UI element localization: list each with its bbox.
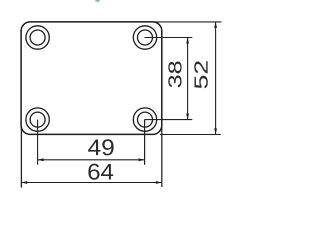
- dimension line 38: [187, 38, 189, 120]
- extension line 52 bottom (plate bottom edge extended right): [160, 134, 221, 136]
- hole bottom-left inner: [30, 112, 45, 127]
- arrow 38 up: [186, 38, 189, 44]
- extension line 64 left (plate left edge extended down): [20, 127, 22, 188]
- hole top-left outer: [26, 26, 49, 49]
- dimension line 49: [38, 159, 145, 161]
- dimension line 52: [215, 22, 217, 135]
- label 49: [88, 139, 114, 155]
- label 64: [88, 164, 113, 180]
- neck plate outline: [21, 22, 162, 134]
- arrow 49 left: [38, 158, 44, 161]
- extension line 38 top (from top-right hole center to right): [145, 37, 193, 39]
- hole top-right inner: [138, 30, 153, 45]
- arrow 64 left: [21, 181, 27, 184]
- extension line 38 bottom (from bottom-right hole center to right): [145, 119, 193, 121]
- hole bottom-right inner: [138, 112, 153, 127]
- label 38: [168, 62, 181, 88]
- extension line 64 right (plate right edge extended down): [161, 127, 163, 187]
- hole bottom-right outer: [133, 108, 156, 131]
- arrow 64 right: [156, 181, 162, 184]
- arrow 49 right: [139, 158, 145, 161]
- extension line 52 top (plate top edge extended right): [155, 21, 222, 23]
- screenshot artifact teal dot: [95, 0, 99, 2]
- arrow 38 down: [186, 114, 189, 120]
- dimension line 64: [21, 182, 162, 184]
- hole bottom-left outer: [26, 108, 49, 131]
- extension line 49 left (from bottom-left hole center down): [37, 120, 39, 165]
- arrow 52 up: [214, 22, 217, 28]
- arrow 52 down: [214, 129, 217, 135]
- hole top-left inner: [30, 30, 45, 45]
- label 52: [194, 61, 208, 88]
- hole top-right outer: [133, 26, 156, 49]
- extension line 49 right (from bottom-right hole center down): [144, 120, 146, 165]
